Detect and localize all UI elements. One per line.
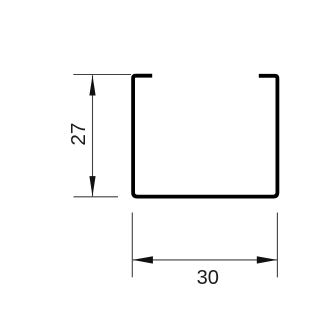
arrowhead down	[89, 176, 95, 196]
arrowhead left	[133, 256, 153, 263]
arrowhead right	[257, 256, 277, 263]
horizontal dimension line	[133, 259, 278, 261]
extension line right (width dim)	[276, 213, 278, 278]
extension line left (width dim)	[131, 213, 133, 278]
svg-text:27: 27	[68, 123, 90, 146]
svg-text:30: 30	[197, 267, 219, 289]
extension line top (height dim)	[73, 74, 131, 76]
C-channel profile outline	[133, 76, 277, 197]
vertical dimension line	[92, 75, 94, 196]
extension line bottom (height dim)	[74, 196, 119, 198]
arrowhead up	[89, 75, 95, 95]
